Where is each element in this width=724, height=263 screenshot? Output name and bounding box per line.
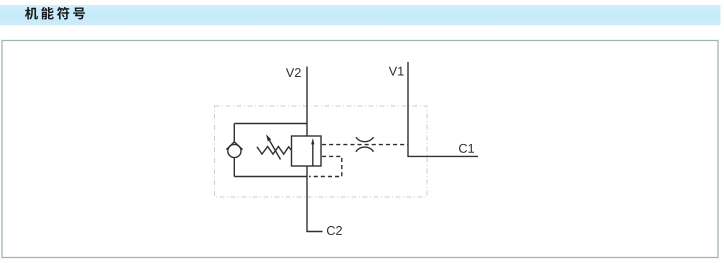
header title 机能符号 xyxy=(25,7,85,20)
adjustment arrow shaft xyxy=(269,140,280,160)
pilot line upper (to V1) xyxy=(322,144,408,146)
pilot line lower loop xyxy=(309,156,342,176)
label V1 xyxy=(389,67,404,76)
valve internal flow line xyxy=(312,143,314,166)
wire V2 vertical xyxy=(306,67,308,137)
wire loop bottom xyxy=(234,176,307,178)
relief valve body xyxy=(292,136,322,166)
pilot boundary dashed box xyxy=(215,106,428,197)
label C2 xyxy=(327,226,342,235)
label V2 xyxy=(286,68,301,77)
adjustment arrow head xyxy=(266,134,271,141)
check valve ball xyxy=(228,144,241,157)
wire loop top xyxy=(234,123,307,125)
header bar xyxy=(0,5,721,25)
valve internal arrow head xyxy=(311,138,314,144)
wire C2 from valve bottom xyxy=(307,166,323,232)
wire V1 to C1 xyxy=(408,62,478,156)
wire loop left upper xyxy=(233,124,235,143)
check valve seat chevron xyxy=(226,142,242,150)
spring (adjustable) of relief valve xyxy=(257,147,292,155)
orifice upper arc xyxy=(356,137,374,142)
orifice lower arc xyxy=(356,147,374,152)
label C1 xyxy=(459,144,474,153)
wire loop left lower xyxy=(233,158,235,177)
